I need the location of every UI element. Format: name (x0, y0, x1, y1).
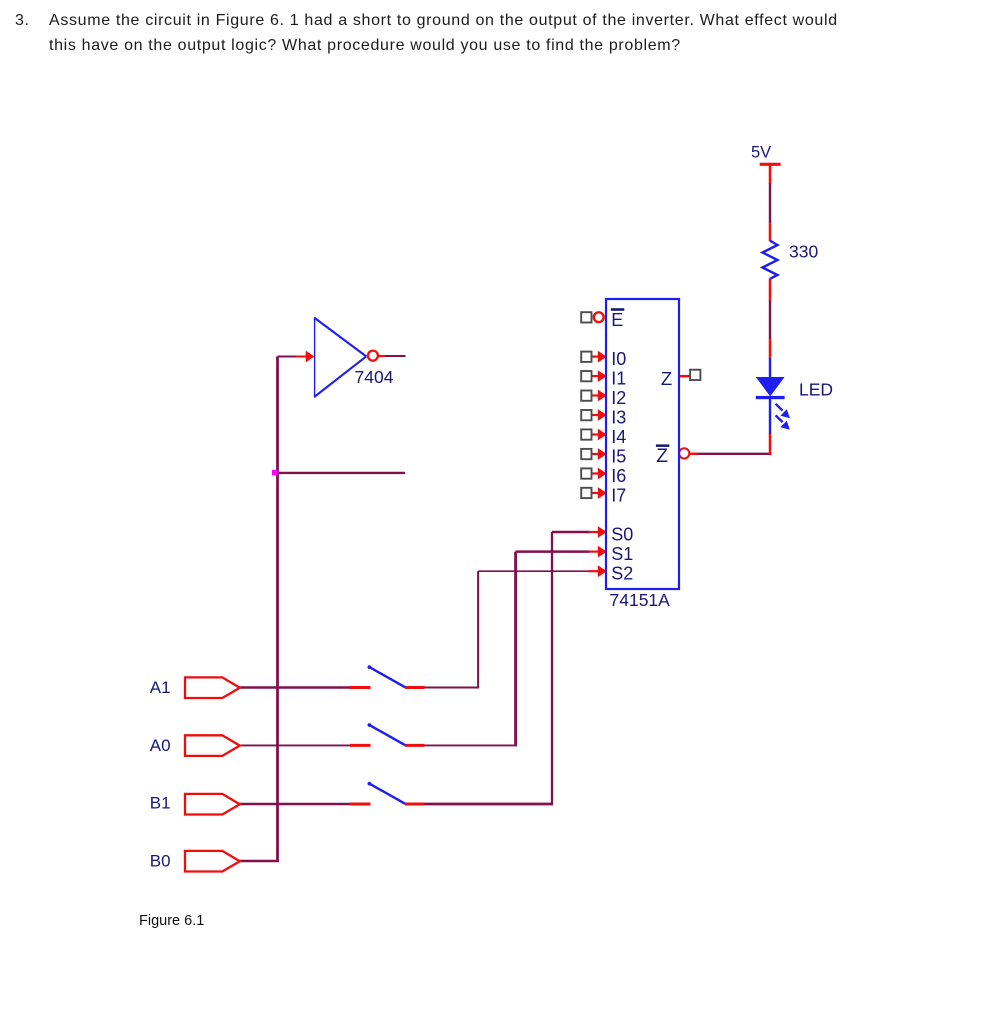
svg-text:B1: B1 (150, 794, 171, 813)
svg-text:I0: I0 (611, 349, 626, 369)
svg-text:5V: 5V (751, 144, 771, 162)
svg-text:I1: I1 (611, 369, 626, 389)
svg-text:I5: I5 (611, 447, 626, 467)
svg-text:A0: A0 (150, 736, 171, 755)
svg-text:I7: I7 (611, 486, 626, 506)
svg-text:A1: A1 (150, 678, 171, 697)
svg-text:7404: 7404 (355, 367, 394, 387)
svg-text:S0: S0 (611, 525, 633, 545)
svg-text:I3: I3 (611, 408, 626, 428)
svg-text:Z: Z (661, 368, 672, 389)
svg-text:E: E (611, 310, 623, 330)
svg-text:S1: S1 (611, 544, 633, 564)
svg-text:330: 330 (789, 241, 818, 261)
svg-text:LED: LED (799, 380, 833, 400)
svg-text:I2: I2 (611, 388, 626, 408)
svg-text:B0: B0 (150, 851, 171, 870)
svg-text:S2: S2 (611, 564, 633, 584)
svg-text:74151A: 74151A (610, 590, 671, 610)
svg-text:Z: Z (656, 446, 668, 467)
svg-text:I6: I6 (611, 466, 626, 486)
svg-text:I4: I4 (611, 427, 626, 447)
